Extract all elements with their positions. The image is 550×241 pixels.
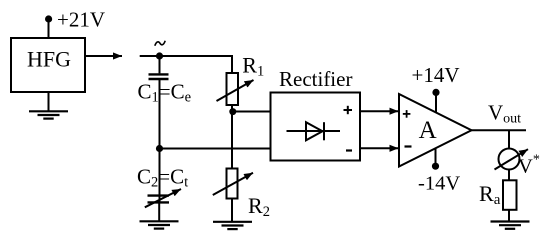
label minus op-amp input	[405, 145, 412, 147]
arrow HFG output	[85, 55, 122, 57]
rectifier box	[271, 93, 361, 161]
capacitor C1 plates	[149, 73, 169, 75]
ground HFG	[29, 111, 68, 118]
node -14V dot and stub	[435, 148, 437, 166]
wire rectifier minus output arrow	[360, 147, 399, 149]
ground Ra	[491, 222, 530, 229]
wire node to R1 branch	[140, 55, 232, 57]
node junction dot middle	[156, 145, 163, 152]
wire C2 to ground	[158, 202, 160, 221]
svg-text:A: A	[419, 117, 437, 144]
arrow variable R1	[217, 80, 254, 101]
node +14V dot and stub	[435, 92, 437, 112]
wire R2 to ground	[231, 199, 233, 222]
wire HFG to ground	[48, 92, 50, 111]
wire +21V to HFG	[48, 19, 50, 38]
wire node to C1	[159, 56, 161, 73]
wire junction to C2	[159, 149, 161, 203]
svg-text:R2: R2	[248, 193, 270, 220]
node +21V dot	[45, 15, 52, 22]
wire C1 to junction	[159, 79, 161, 149]
svg-text:R1: R1	[242, 53, 264, 80]
label plus op-amp input	[403, 113, 411, 115]
svg-text:C1=Ce: C1=Ce	[138, 79, 192, 105]
wire top branch down to R1	[231, 55, 233, 73]
svg-text:Rectifier: Rectifier	[279, 67, 352, 91]
wire output branch to meter	[508, 130, 510, 149]
svg-text:C2=Ct: C2=Ct	[137, 165, 188, 191]
wire Ra to ground	[508, 210, 510, 222]
HFG box	[11, 38, 85, 92]
svg-text:HFG: HFG	[27, 46, 71, 71]
wire R1 to R2	[231, 105, 233, 169]
svg-text:Vout: Vout	[488, 101, 521, 127]
svg-text:+21V: +21V	[57, 8, 105, 32]
svg-text:Ra: Ra	[479, 181, 501, 208]
resistor Ra body	[503, 180, 517, 210]
diode D1	[287, 130, 341, 132]
label minus rectifier	[346, 149, 352, 151]
op-amp A triangle	[399, 94, 472, 167]
arrow variable R2	[213, 173, 253, 195]
ground R2	[213, 222, 252, 229]
label plus rectifier	[344, 109, 353, 111]
wire junction to rectifier upper input	[232, 111, 271, 113]
arrow variable C2	[145, 189, 181, 207]
arrow variable meter	[495, 149, 529, 169]
wire op-amp output	[472, 129, 527, 131]
node junction dot top	[156, 52, 163, 59]
wire meter to Ra	[508, 170, 510, 181]
resistor R1 body	[227, 73, 239, 105]
svg-text:-14V: -14V	[418, 173, 460, 195]
ground C2	[140, 221, 179, 228]
wire rectifier plus output arrow	[360, 110, 399, 112]
node junction dot below R1	[229, 108, 236, 115]
wire junction to rectifier lower input	[160, 148, 271, 150]
meter V* circle	[499, 149, 520, 170]
svg-text:+14V: +14V	[412, 63, 460, 87]
tilde AC symbol	[155, 41, 165, 46]
resistor R2 body	[227, 169, 238, 199]
svg-text:V*: V*	[518, 152, 540, 177]
capacitor C2 plates (variable)	[148, 194, 170, 196]
